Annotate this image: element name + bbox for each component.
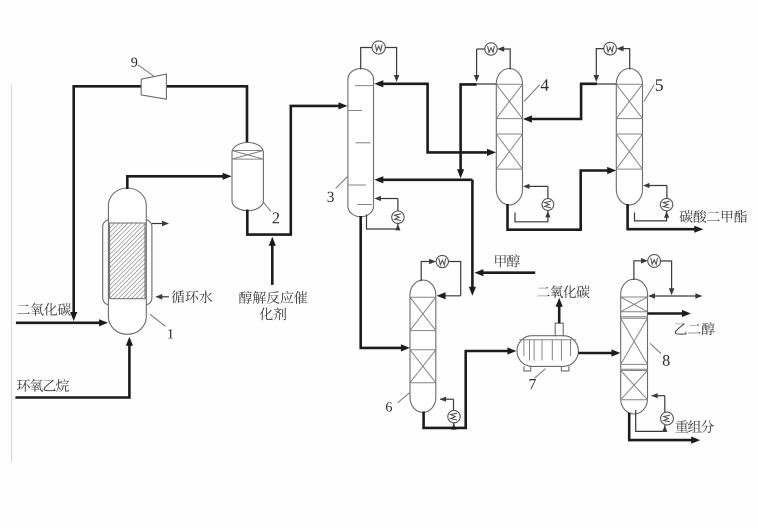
column C8 packing section 2 — [621, 317, 648, 319]
column C8 mid tray line — [621, 368, 648, 370]
column C4 shell — [496, 69, 522, 205]
leader line to column 3 — [336, 177, 348, 189]
label ethylene glycol (乙二醇) — [675, 322, 715, 335]
column C6 packing section 1 — [410, 296, 436, 298]
pipe ethylene glycol side draw (乙二醇) — [648, 312, 688, 315]
pipe methanol header vertical down to column 6 — [471, 180, 474, 291]
label catalyst line 1 (醇解反应催) — [239, 291, 307, 304]
pipe column 4 bottom to reboiler — [515, 213, 548, 222]
pipe DMC product out of column 5 — [628, 204, 699, 229]
pipe reflux/feed into column 6 — [440, 295, 461, 297]
pipe ethylene-oxide feed into reactor 1 bottom — [15, 343, 129, 398]
pipe column 6 overhead to condenser — [421, 262, 432, 282]
label 9 — [131, 58, 137, 67]
pipe condenser 4 product downcomer — [476, 49, 478, 78]
label circulating water (循环水) — [171, 290, 212, 303]
label carbon dioxide feed (二氧化碳) — [17, 303, 71, 316]
pipe vessel 2 bottoms to column 3 feed — [247, 106, 343, 235]
pipe recycle from column 5 into column 4 — [527, 84, 598, 119]
pipe column 3 bottom to reboiler — [367, 215, 395, 230]
label 2 — [273, 212, 280, 223]
pipe column 8 overhead to condenser — [634, 261, 644, 280]
reboiler E8 (circle with wave) — [661, 412, 674, 425]
pipe condenser 5 product downcomer — [596, 49, 604, 78]
label 4 — [541, 79, 549, 91]
drum V7 internal top line — [519, 339, 576, 341]
vessel V2 body — [232, 143, 263, 211]
condenser E3 (circle with wave) — [372, 41, 385, 54]
column C8 draw tray lines — [621, 316, 648, 318]
label 1 — [168, 329, 173, 338]
column C8 shell — [621, 279, 648, 414]
compressor 9 (trapezoid) — [141, 74, 166, 99]
leader line to compressor 9 — [138, 65, 154, 76]
reactor R1 catalyst bed (hatched) — [110, 223, 145, 299]
pipe reboiler 6 return — [453, 399, 455, 410]
pipe reboiler 3 return into column — [397, 199, 399, 212]
scan edge artifact line — [11, 85, 13, 462]
column C4 packing section 2 — [496, 133, 522, 135]
column C8 packing section 3 — [621, 370, 648, 372]
pipe compressor outlet to vessel 2 top — [166, 86, 247, 143]
coolant inlet arrow (循环水) — [159, 296, 169, 298]
leader line to column 6 — [398, 393, 410, 403]
label heavy components (重组分) — [675, 420, 714, 433]
reactor R1 vessel — [108, 188, 146, 334]
pipe column 5 bottom to reboiler — [635, 213, 667, 221]
condenser E6 (circle with wave) — [436, 255, 448, 267]
pipe column 6 bottoms to drum 7 — [424, 351, 513, 428]
vessel V2 internal X band — [232, 150, 263, 152]
column C5 packing section 1 — [616, 83, 642, 85]
leader line to column 4 — [524, 85, 540, 102]
pipe column 4 overhead to condenser — [501, 49, 511, 70]
label 5 — [656, 79, 663, 91]
column C6 shell — [410, 280, 436, 412]
pipe reactor 1 overhead to vessel 2 — [127, 176, 227, 189]
leader line to column 5 — [644, 85, 654, 102]
reboiler E4 (circle with wave) — [542, 199, 554, 211]
pipe column 3 bottoms to column 6 — [361, 216, 406, 348]
column C6 packing section 2 — [410, 349, 436, 351]
pipe condenser 8 outlet downcomer — [661, 261, 672, 292]
reboiler E5 (circle with wave) — [660, 198, 672, 210]
condenser E5 (circle with wave) — [604, 42, 617, 55]
pipe column 5 overhead to condenser — [620, 49, 630, 70]
column C3 tray lines — [355, 85, 374, 87]
pipe reflux into column 4 — [477, 83, 497, 85]
pipe column 3 overhead to condenser — [361, 48, 372, 70]
pipe column 4 bottoms to column 5 feed — [508, 171, 613, 230]
coolant outlet arrow — [152, 223, 165, 225]
reactor R1 cooling jacket — [103, 220, 152, 305]
label 3 — [328, 192, 334, 202]
label catalyst line 2 (化剂) — [260, 307, 287, 320]
pipe distillate to column 4 feed — [426, 84, 492, 153]
column C3 shell — [348, 69, 374, 217]
label ethylene oxide feed (环氧乙烷) — [17, 379, 69, 392]
drum V7 left leg — [524, 366, 531, 371]
pipe reboiler 8 return — [664, 396, 666, 412]
pipe condenser 6 reflux downcomer — [448, 262, 460, 296]
column C5 shell — [616, 69, 642, 205]
pipe reboiler 6 vapor arrow — [451, 423, 456, 430]
drum V7 internal tubes — [523, 340, 525, 356]
leader line to reactor 1 — [150, 314, 165, 326]
column C8 packing section 1 — [621, 296, 648, 298]
pipe recycle junction vertical (col4 overhead product down) — [461, 84, 477, 172]
leader line to drum 7 — [535, 369, 546, 379]
label dimethyl carbonate (碳酸二甲酯) — [680, 210, 747, 223]
condenser E8 (circle with wave) — [648, 255, 661, 268]
label 7 — [530, 379, 536, 389]
label 8 — [663, 355, 670, 366]
leader line to column 8 — [650, 343, 661, 353]
leader line to vessel 2 — [263, 202, 271, 211]
drum V7 right leg — [561, 366, 569, 371]
pipe CO2 vent from drum 7 — [558, 303, 561, 323]
reboiler E6 (circle with wave) — [448, 410, 460, 422]
pipe reboiler 4 return — [547, 186, 549, 198]
pipe drum 7 outlet to column 8 — [578, 352, 616, 355]
pipe methanol recycle header into column 3 — [378, 179, 473, 182]
column C4 packing section 1 — [496, 83, 522, 85]
drum V7 shell — [517, 336, 578, 367]
pipe catalyst feed (醇解反应催化剂) — [271, 243, 274, 285]
pipe reboiler 5 return — [666, 186, 668, 199]
pipe heavies out of column 8 (重组分) — [629, 413, 696, 441]
pipe CO2 recycle from compressor down to feed junction — [74, 86, 142, 313]
label 6 — [386, 402, 392, 411]
pipe reflux/distillate header into column 3 — [378, 83, 428, 86]
drum V7 vent nozzle — [555, 323, 563, 336]
pipe methanol feed (甲醇) — [478, 271, 535, 274]
pipe light ends line out right — [651, 295, 698, 297]
pipe CO2 feed into reactor 1 — [16, 321, 101, 324]
label methanol (甲醇) — [495, 254, 520, 267]
condenser E4 (circle with wave) — [485, 43, 497, 55]
pipe condenser 4 to junction — [477, 48, 485, 50]
pipe column 8 bottom to reboiler — [636, 410, 665, 431]
label carbon dioxide vent (二氧化碳) — [537, 285, 590, 298]
pipe reflux into column 5 — [596, 83, 616, 85]
reboiler E3 (circle with wave) — [392, 211, 404, 223]
pipe condenser 3 outlet down — [385, 48, 396, 78]
column C5 packing section 2 — [616, 133, 642, 135]
